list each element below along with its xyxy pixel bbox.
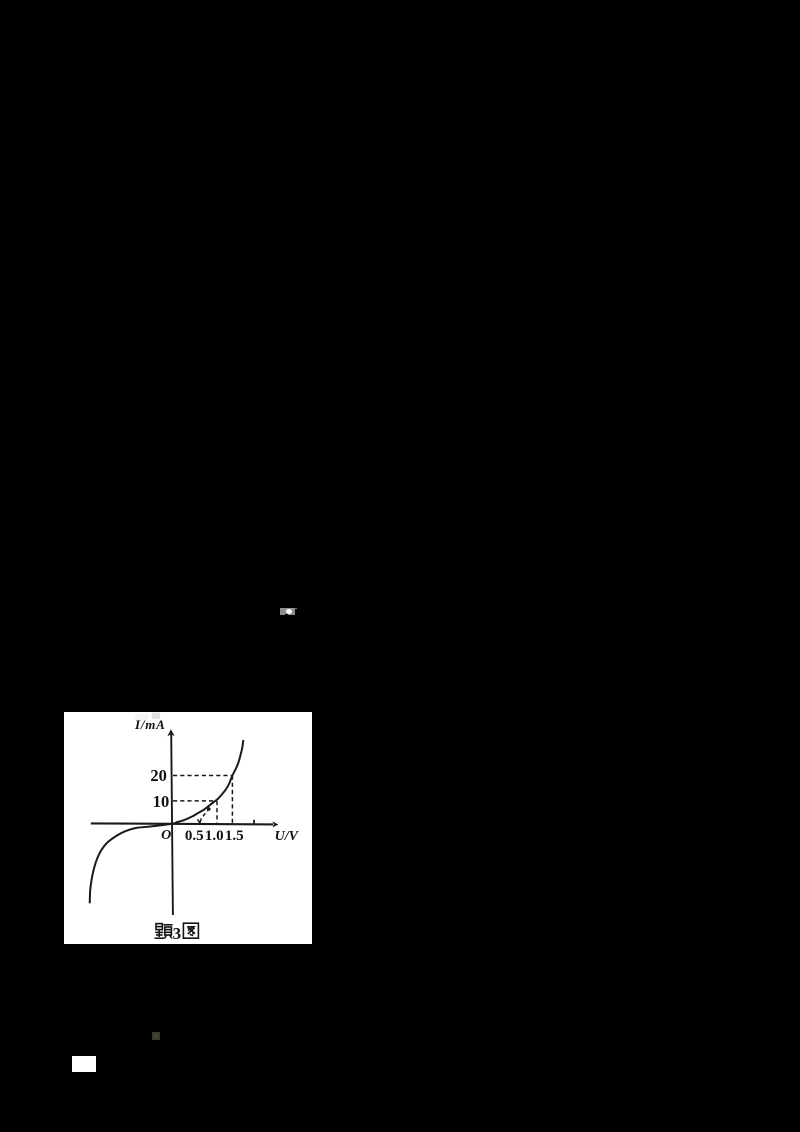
origin label O (161, 828, 171, 843)
hanzi 题 (155, 923, 173, 938)
x-axis (91, 821, 278, 827)
dashed guide vertical at U=1.5 (231, 775, 233, 823)
svg-text:0.5: 0.5 (185, 828, 204, 844)
svg-text:3: 3 (173, 923, 182, 942)
svg-text:1.0: 1.0 (205, 828, 224, 844)
svg-text:O: O (161, 828, 171, 843)
dashed annotation arrow toward origin (198, 808, 210, 823)
scan artifact dark square (152, 1032, 160, 1040)
figure panel (white box) (64, 712, 312, 945)
hanzi 图 (183, 923, 198, 938)
y tick label 10 (153, 792, 170, 811)
dashed guide at I=10 (173, 799, 216, 801)
svg-text:U/V: U/V (275, 829, 300, 844)
svg-text:20: 20 (150, 766, 167, 785)
scan artifact blob (gray patch with white spot) (280, 608, 295, 615)
point marker on curve (207, 807, 211, 811)
y-axis label I/mA (134, 716, 166, 731)
svg-text:10: 10 (153, 792, 170, 811)
scan artifact white rectangle (72, 1056, 96, 1072)
svg-text:I/mA: I/mA (134, 716, 166, 731)
y tick label 20 (150, 766, 167, 785)
x tick labels 0.5 1.0 1.5 (185, 828, 244, 844)
x-axis label U/V (275, 829, 300, 844)
dashed guide vertical at U=1.0 (216, 800, 218, 823)
x-axis tick at U=2.0 (253, 819, 255, 823)
light gray smudge square (152, 712, 160, 718)
y-axis (167, 729, 174, 915)
faint scan smudge above y-axis label (135, 714, 149, 721)
svg-text:1.5: 1.5 (225, 828, 244, 844)
dashed guide at I=20 (173, 774, 233, 776)
caption 题3图 (155, 923, 199, 943)
I-V characteristic curve (90, 740, 244, 903)
